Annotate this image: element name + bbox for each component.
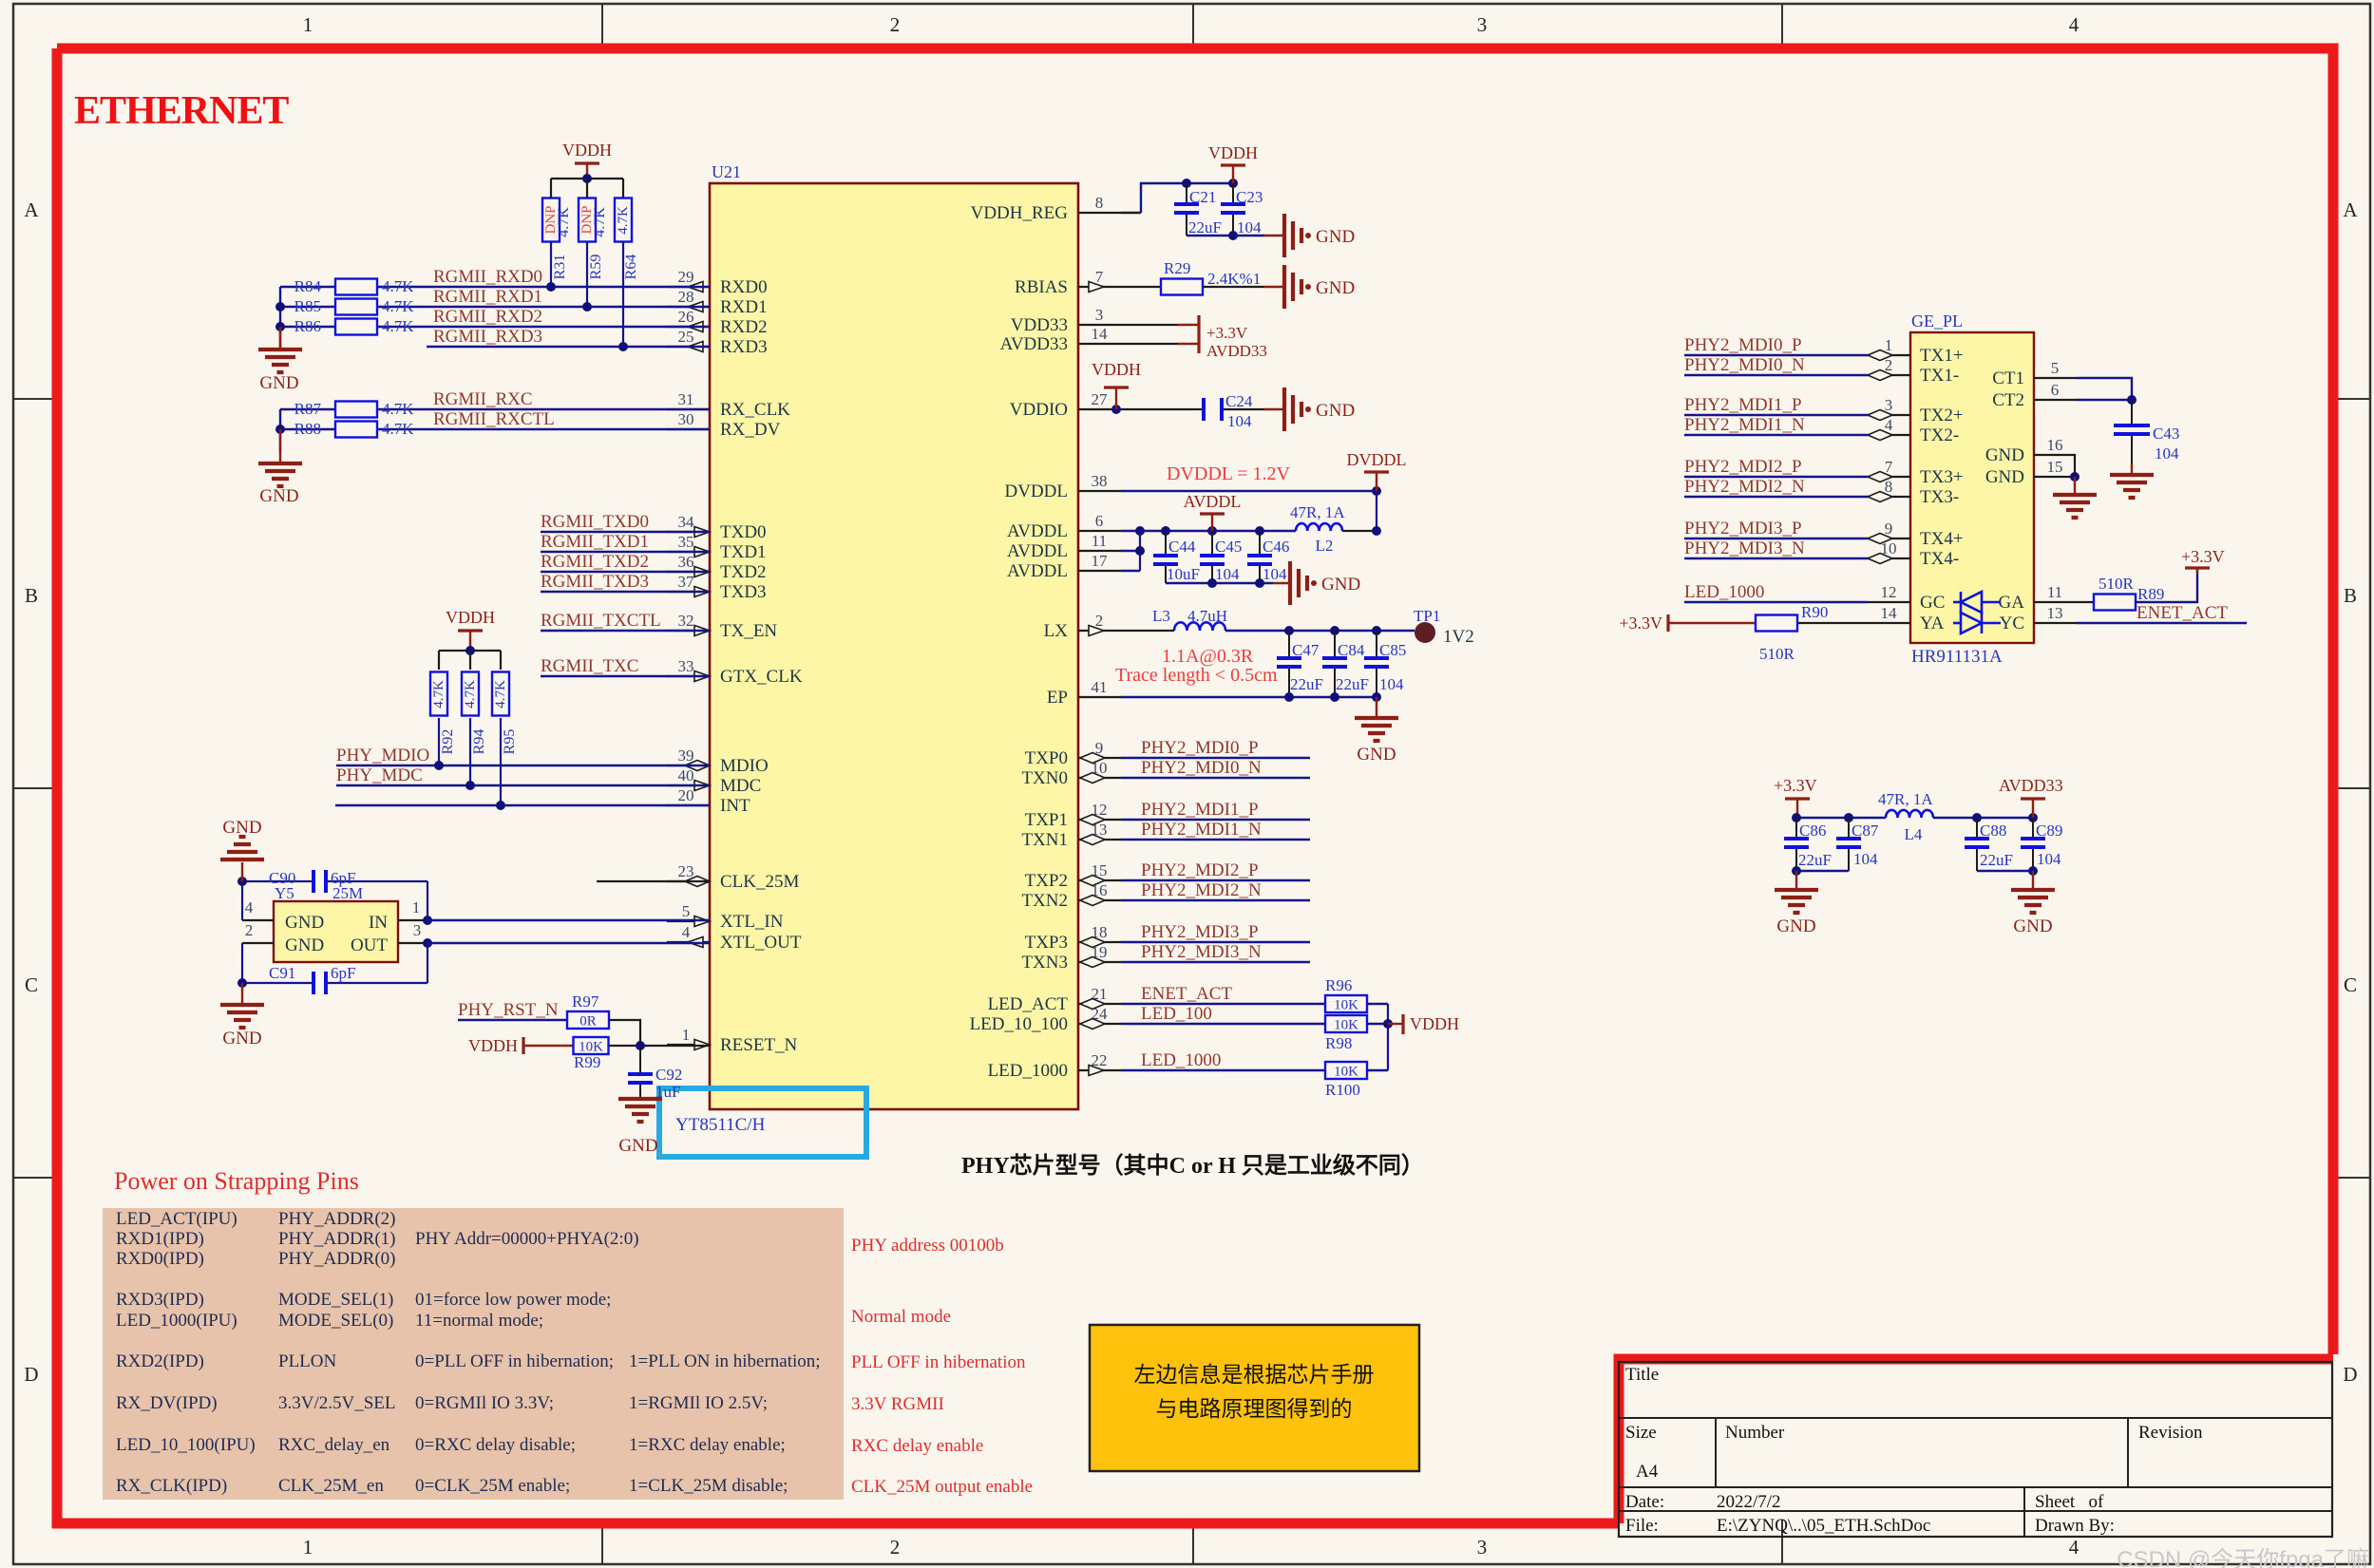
svg-text:8: 8	[1885, 478, 1893, 496]
svg-text:CT1: CT1	[1992, 368, 2024, 388]
svg-text:PHY2_MDI1_N: PHY2_MDI1_N	[1684, 415, 1805, 435]
power VDDH above C23	[1221, 163, 1245, 166]
net RGMII_RXD2 wire	[280, 326, 336, 328]
GE_PL pin 14 YA	[1868, 622, 1910, 624]
svg-text:1=CLK_25M disable;: 1=CLK_25M disable;	[629, 1476, 788, 1496]
svg-text:B: B	[25, 584, 38, 607]
svg-text:R95: R95	[502, 729, 518, 755]
svg-text:1: 1	[303, 1536, 313, 1559]
svg-text:R96: R96	[1325, 976, 1352, 994]
U21 pin 30 RX_DV	[667, 428, 710, 430]
resistor R88	[335, 422, 377, 438]
GE_PL pin 8 TX3-	[1868, 496, 1910, 498]
capacitor C90	[242, 880, 313, 882]
svg-text:TXD3: TXD3	[720, 582, 767, 602]
svg-text:16: 16	[2047, 436, 2063, 454]
svg-text:C: C	[2344, 973, 2357, 996]
svg-text:GND: GND	[1321, 575, 1360, 595]
ground for R29	[1282, 265, 1286, 309]
svg-text:PHY2_MDI1_P: PHY2_MDI1_P	[1141, 800, 1259, 820]
svg-text:23: 23	[678, 862, 694, 880]
svg-text:22uF: 22uF	[1290, 675, 1323, 693]
svg-text:AVDD33: AVDD33	[1000, 334, 1068, 354]
svg-text:C44: C44	[1168, 538, 1196, 556]
svg-text:CLK_25M output enable: CLK_25M output enable	[851, 1477, 1033, 1497]
U21 pin 10 TXN0	[1078, 777, 1121, 779]
svg-text:RGMII_RXD2: RGMII_RXD2	[433, 307, 542, 327]
svg-text:104: 104	[2155, 444, 2179, 463]
svg-text:RGMII_RXCTL: RGMII_RXCTL	[433, 409, 555, 429]
svg-text:A4: A4	[1636, 1462, 1659, 1482]
svg-text:RXD3: RXD3	[720, 337, 768, 357]
svg-text:左边信息是根据芯片手册: 左边信息是根据芯片手册	[1134, 1363, 1375, 1387]
net PHY2_MDI1_N wire at U21	[1121, 839, 1310, 841]
svg-text:VDDH: VDDH	[468, 1036, 518, 1055]
svg-text:PHY_ADDR(2): PHY_ADDR(2)	[278, 1209, 396, 1229]
svg-text:LED_100: LED_100	[1141, 1004, 1212, 1024]
net LED_1000 wire at GE_PL	[1684, 601, 1868, 603]
U21 pin 9 TXP0	[1078, 757, 1121, 759]
net PHY2_MDI0_P wire at GE_PL	[1684, 354, 1868, 356]
wire LED pullup bus	[1367, 1003, 1388, 1005]
wire R89 to +3.3V	[2136, 570, 2197, 602]
svg-text:2022/7/2: 2022/7/2	[1717, 1492, 1781, 1512]
svg-text:Title: Title	[1625, 1365, 1659, 1385]
svg-text:C88: C88	[1980, 822, 2006, 840]
svg-text:0=CLK_25M enable;: 0=CLK_25M enable;	[415, 1476, 570, 1496]
svg-text:R85: R85	[294, 297, 321, 315]
capacitor C84	[1334, 631, 1336, 658]
svg-text:1=RGMIl IO 2.5V;: 1=RGMIl IO 2.5V;	[629, 1393, 768, 1413]
svg-text:R59: R59	[588, 255, 604, 280]
svg-text:5: 5	[2051, 359, 2060, 377]
ground for RXC pulldowns	[279, 429, 281, 463]
title block outline	[1619, 1362, 2332, 1537]
inductor L4	[1886, 810, 1933, 818]
wire CLK_25M stub	[597, 880, 710, 882]
svg-text:LX: LX	[1044, 621, 1069, 641]
resistor R86	[335, 319, 377, 335]
resistor R64	[615, 198, 632, 242]
svg-text:DVDDL: DVDDL	[1347, 450, 1407, 469]
svg-text:LED_10_100(IPU): LED_10_100(IPU)	[116, 1435, 256, 1455]
svg-text:R29: R29	[1164, 259, 1190, 277]
ground above C90	[241, 862, 243, 881]
svg-text:LED_10_100: LED_10_100	[970, 1014, 1068, 1034]
svg-text:PHY2_MDI3_N: PHY2_MDI3_N	[1684, 538, 1805, 558]
ground for RXD pulldowns	[279, 327, 281, 349]
resistor R90	[1756, 615, 1797, 632]
U21 pin 13 TXN1	[1078, 839, 1121, 841]
svg-text:31: 31	[678, 390, 694, 408]
svg-text:38: 38	[1092, 472, 1108, 490]
svg-text:PHY2_MDI3_P: PHY2_MDI3_P	[1684, 519, 1802, 538]
svg-text:C23: C23	[1236, 188, 1263, 206]
svg-text:TXP2: TXP2	[1025, 871, 1068, 891]
blue highlight box around YT8511C/H	[659, 1088, 866, 1157]
svg-text:GND: GND	[222, 1029, 261, 1048]
svg-text:PHY2_MDI2_N: PHY2_MDI2_N	[1684, 477, 1805, 497]
U21 pin 21 LED_ACT	[1078, 1003, 1121, 1005]
svg-text:VDDH_REG: VDDH_REG	[971, 203, 1069, 223]
capacitor C85	[1376, 631, 1377, 658]
svg-text:PHY2_MDI0_N: PHY2_MDI0_N	[1684, 355, 1805, 375]
svg-text:1: 1	[1885, 336, 1893, 354]
svg-text:PHY Addr=00000+PHYA(2:0): PHY Addr=00000+PHYA(2:0)	[415, 1229, 639, 1249]
svg-text:4: 4	[2069, 13, 2080, 36]
resistor R92	[430, 672, 447, 716]
svg-text:R88: R88	[294, 420, 321, 438]
wire EP to ground rail	[1121, 696, 1377, 698]
svg-text:OUT: OUT	[351, 935, 388, 955]
svg-text:GND: GND	[259, 373, 298, 393]
wire crystal left bus	[241, 881, 243, 920]
svg-text:35: 35	[678, 533, 694, 551]
svg-text:R84: R84	[294, 277, 322, 295]
svg-text:XTL_OUT: XTL_OUT	[720, 933, 802, 953]
svg-text:GND: GND	[1776, 916, 1815, 936]
svg-text:PHY2_MDI0_N: PHY2_MDI0_N	[1141, 758, 1262, 778]
svg-text:PHY_ADDR(1): PHY_ADDR(1)	[278, 1229, 396, 1249]
svg-text:26: 26	[678, 308, 694, 326]
U21 pin 8 VDDH_REG	[1078, 212, 1121, 214]
net RGMII_RXD0 wire	[280, 286, 336, 288]
wire L3 to TP1	[1225, 630, 1415, 632]
resistor R31 (DNP)	[542, 198, 560, 242]
svg-text:RX_DV: RX_DV	[720, 420, 781, 440]
svg-text:14: 14	[1881, 604, 1898, 622]
U21 pin 20 INT	[667, 804, 710, 806]
svg-text:AVDDL: AVDDL	[1007, 541, 1068, 561]
ground for AVDDL caps	[1288, 561, 1292, 605]
power +3.3V at VDD33 pin	[1121, 324, 1178, 326]
svg-text:CT2: CT2	[1992, 390, 2024, 410]
capacitor C44	[1165, 531, 1167, 556]
svg-text:RBIAS: RBIAS	[1015, 277, 1068, 297]
net RGMII_TXD0 wire	[541, 531, 710, 533]
svg-text:4.7K: 4.7K	[382, 317, 414, 335]
svg-text:20: 20	[678, 786, 694, 804]
U21 pin 2 LX	[1078, 630, 1121, 632]
capacitor C91	[242, 982, 313, 984]
svg-text:RGMII_TXD3: RGMII_TXD3	[541, 572, 649, 592]
svg-text:R87: R87	[294, 400, 322, 418]
net RGMII_TXC wire	[541, 675, 710, 677]
svg-text:R89: R89	[2137, 585, 2164, 603]
svg-text:36: 36	[678, 553, 694, 571]
wire XTL_OUT	[427, 942, 710, 944]
net LED_100 wire	[1121, 1023, 1325, 1025]
svg-text:GE_PL: GE_PL	[1911, 312, 1963, 331]
svg-text:22uF: 22uF	[1798, 851, 1832, 869]
svg-text:Trace length < 0.5cm: Trace length < 0.5cm	[1115, 665, 1278, 686]
svg-text:TX1+: TX1+	[1920, 346, 1964, 366]
svg-text:GND: GND	[222, 818, 261, 838]
svg-text:3: 3	[1477, 13, 1488, 36]
svg-text:CLK_25M_en: CLK_25M_en	[278, 1476, 384, 1496]
svg-text:AVDD33: AVDD33	[1206, 342, 1267, 360]
svg-text:VDD33: VDD33	[1011, 315, 1068, 335]
svg-text:PHY芯片型号（其中C or H 只是工业级不同）: PHY芯片型号（其中C or H 只是工业级不同）	[961, 1152, 1424, 1179]
svg-text:PHY2_MDI2_N: PHY2_MDI2_N	[1141, 880, 1262, 900]
svg-text:VDDH: VDDH	[1208, 143, 1258, 162]
svg-text:14: 14	[1092, 325, 1109, 343]
crystal Y5 body	[274, 901, 398, 962]
svg-text:R90: R90	[1801, 603, 1828, 621]
svg-text:GTX_CLK: GTX_CLK	[720, 667, 803, 687]
svg-text:104: 104	[1227, 412, 1252, 430]
svg-text:4.7K: 4.7K	[556, 207, 572, 237]
wire DVDDL pin to DVDDL rail	[1121, 490, 1377, 492]
svg-text:PHY2_MDI1_P: PHY2_MDI1_P	[1684, 395, 1802, 415]
wire DVDDL vertical rail	[1376, 491, 1377, 531]
wire crystal right bus	[427, 881, 428, 920]
wire PHY_RST_N	[458, 1019, 567, 1021]
resistor R96	[1325, 995, 1367, 1012]
crystal Y5 pin 4	[242, 919, 274, 921]
U21 pin 39 MDIO	[667, 765, 710, 766]
GE_PL pin 7 TX3+	[1868, 476, 1910, 478]
strapping table background	[103, 1208, 844, 1500]
svg-text:4.7K: 4.7K	[382, 420, 414, 438]
wire RBIAS to R29	[1121, 286, 1161, 288]
wire pullup rail	[551, 178, 623, 179]
svg-text:37: 37	[678, 573, 695, 591]
capacitor C47	[1288, 631, 1290, 658]
svg-text:R31: R31	[552, 255, 568, 280]
svg-text:ETHERNET: ETHERNET	[74, 89, 289, 133]
svg-text:C84: C84	[1338, 641, 1365, 659]
svg-text:CSDN @今天你fpga了嘛: CSDN @今天你fpga了嘛	[2117, 1547, 2369, 1568]
wire LX to L3	[1121, 630, 1174, 632]
ground below C85	[1376, 697, 1377, 718]
wire C24 to ground	[1264, 408, 1284, 410]
svg-text:RX_CLK(IPD): RX_CLK(IPD)	[116, 1476, 227, 1496]
svg-text:RGMII_RXD1: RGMII_RXD1	[433, 287, 542, 307]
wire AVDDL caps to ground	[1166, 582, 1273, 584]
LED diode GC-GA	[1953, 601, 1961, 604]
svg-text:2: 2	[890, 1536, 901, 1559]
net PHY2_MDI3_P wire at GE_PL	[1684, 538, 1868, 539]
wire AVDDL pins join	[1121, 530, 1140, 532]
svg-text:1: 1	[412, 898, 421, 916]
svg-text:TP1: TP1	[1414, 607, 1440, 625]
net PHY2_MDI0_N wire at U21	[1121, 777, 1310, 779]
U21 pin 17 AVDDL	[1078, 570, 1121, 572]
svg-text:TXP1: TXP1	[1025, 810, 1068, 830]
GE_PL pin 6 CT2	[2034, 399, 2077, 401]
svg-text:22uF: 22uF	[1188, 218, 1222, 236]
svg-text:R98: R98	[1325, 1034, 1352, 1052]
svg-text:R97: R97	[572, 992, 599, 1011]
capacitor C23	[1232, 183, 1234, 204]
svg-text:2: 2	[890, 13, 901, 36]
svg-text:C89: C89	[2036, 822, 2062, 840]
svg-text:RGMII_RXC: RGMII_RXC	[433, 389, 533, 409]
net PHY2_MDI3_N wire at GE_PL	[1684, 557, 1868, 559]
svg-text:6: 6	[1095, 512, 1104, 530]
svg-text:5: 5	[682, 902, 691, 920]
svg-text:22uF: 22uF	[1980, 851, 2013, 869]
svg-text:510R: 510R	[1759, 645, 1795, 663]
svg-text:Size: Size	[1625, 1423, 1657, 1443]
net RGMII_TXD2 wire	[541, 571, 710, 573]
U21 pin 38 DVDDL	[1078, 490, 1121, 492]
U21 pin 4 XTL_OUT	[667, 941, 710, 943]
resistor R100	[1325, 1062, 1367, 1079]
capacitor C21	[1186, 183, 1187, 204]
svg-text:TX4+: TX4+	[1920, 529, 1964, 549]
svg-text:R64: R64	[623, 255, 639, 280]
svg-text:GND: GND	[259, 486, 298, 506]
svg-text:PHY2_MDI3_N: PHY2_MDI3_N	[1141, 942, 1262, 962]
U21 pin 40 MDC	[667, 784, 710, 786]
svg-text:PHY2_MDI3_P: PHY2_MDI3_P	[1141, 922, 1259, 942]
U21 pin 3 VDD33	[1078, 324, 1121, 326]
svg-text:PHY2_MDI2_P: PHY2_MDI2_P	[1684, 457, 1802, 477]
test point TP1	[1415, 622, 1435, 643]
U21 pin 16 TXN2	[1078, 899, 1121, 901]
svg-text:104: 104	[1237, 218, 1262, 236]
svg-text:GA: GA	[1999, 593, 2025, 613]
power AVDD33 at AVDD33 pin	[1121, 343, 1178, 345]
capacitor C45	[1211, 531, 1213, 556]
svg-text:RGMII_TXD2: RGMII_TXD2	[541, 552, 649, 572]
capacitor C89	[2032, 818, 2034, 839]
svg-text:0R: 0R	[579, 1014, 597, 1030]
svg-text:4.7uH: 4.7uH	[1187, 607, 1227, 625]
U21 pin 25 RXD3	[667, 346, 710, 348]
svg-text:TX1-: TX1-	[1920, 366, 1959, 386]
U21 pin 7 RBIAS	[1078, 286, 1121, 288]
net RGMII_RXD3 wire	[427, 346, 710, 348]
resistor R98	[1325, 1015, 1367, 1032]
svg-text:GND: GND	[1985, 467, 2024, 487]
svg-text:PHY_MDC: PHY_MDC	[336, 765, 423, 785]
svg-text:C47: C47	[1292, 641, 1320, 659]
svg-text:C91: C91	[269, 964, 295, 982]
crystal Y5 pin 3	[398, 942, 427, 944]
svg-text:GND: GND	[1357, 745, 1396, 765]
svg-text:104: 104	[1379, 675, 1404, 693]
wire filter rail left	[1796, 817, 1886, 819]
svg-text:C85: C85	[1379, 641, 1406, 659]
svg-text:3.3V/2.5V_SEL: 3.3V/2.5V_SEL	[278, 1393, 396, 1413]
U21 pin 12 TXP1	[1078, 819, 1121, 821]
wire VDDIO	[1121, 408, 1194, 410]
svg-text:2: 2	[1095, 612, 1104, 630]
svg-text:8: 8	[1095, 194, 1104, 212]
svg-text:0=PLL OFF in hibernation;: 0=PLL OFF in hibernation;	[415, 1351, 614, 1371]
power VDDH above VDDIO	[1104, 386, 1129, 388]
GE_PL pin 3 TX2+	[1868, 414, 1910, 416]
svg-text:IN: IN	[369, 913, 388, 933]
U21 pin 37 TXD3	[667, 591, 710, 593]
svg-text:MDC: MDC	[720, 776, 761, 796]
capacitor C46	[1259, 531, 1261, 556]
svg-text:GND: GND	[618, 1136, 657, 1156]
svg-text:HR911131A: HR911131A	[1911, 647, 2003, 667]
svg-text:47R, 1A: 47R, 1A	[1290, 503, 1345, 521]
svg-text:TX2+: TX2+	[1920, 406, 1964, 425]
svg-text:PHY_RST_N: PHY_RST_N	[458, 1000, 559, 1020]
svg-text:RGMII_TXD0: RGMII_TXD0	[541, 512, 649, 532]
svg-text:R100: R100	[1325, 1081, 1360, 1099]
svg-text:E:\ZYNQ\..\05_ETH.SchDoc: E:\ZYNQ\..\05_ETH.SchDoc	[1717, 1516, 1930, 1536]
GE_PL pin 10 TX4-	[1868, 557, 1910, 559]
svg-text:C43: C43	[2153, 425, 2179, 443]
svg-text:17: 17	[1092, 552, 1109, 570]
svg-text:D: D	[2343, 1363, 2357, 1386]
ground right filter	[2032, 871, 2034, 890]
wire C86-C87 ground rail	[1796, 870, 1849, 872]
wire RXD pulldown bus	[279, 287, 281, 351]
svg-text:LED_1000: LED_1000	[1141, 1050, 1221, 1070]
svg-text:39: 39	[678, 746, 694, 765]
net PHY2_MDI3_P wire at U21	[1121, 941, 1310, 943]
svg-text:+3.3V: +3.3V	[1206, 324, 1248, 342]
GE_PL pin 2 TX1-	[1868, 374, 1910, 376]
power VDDH for LED pullups	[1388, 1023, 1403, 1025]
orange note box	[1090, 1325, 1419, 1471]
svg-text:7: 7	[1885, 458, 1893, 476]
svg-text:U21: U21	[712, 162, 741, 181]
svg-text:34: 34	[678, 513, 695, 531]
svg-text:VDDH: VDDH	[446, 608, 495, 627]
svg-text:0=RXC delay disable;: 0=RXC delay disable;	[415, 1435, 576, 1455]
inductor L3	[1174, 622, 1225, 631]
U21 pin 36 TXD2	[667, 571, 710, 573]
wire XTL_IN	[427, 919, 710, 921]
svg-text:TX4-: TX4-	[1920, 549, 1959, 569]
net PHY2_MDI2_P wire at U21	[1121, 879, 1310, 881]
svg-text:32: 32	[678, 612, 694, 630]
ground below C43	[2131, 463, 2133, 475]
net PHY2_MDI3_N wire at U21	[1121, 961, 1310, 963]
LED diode YA-YC	[1953, 622, 1961, 625]
svg-text:PHY2_MDI1_N: PHY2_MDI1_N	[1141, 820, 1262, 840]
svg-text:4.7K: 4.7K	[382, 297, 414, 315]
GE_PL pin 11 GA	[2034, 601, 2077, 603]
U21 pin 34 TXD0	[667, 531, 710, 533]
U21 pin 27 VDDIO	[1078, 408, 1121, 410]
svg-text:Power on Strapping Pins: Power on Strapping Pins	[114, 1167, 359, 1195]
svg-text:10uF: 10uF	[1167, 565, 1200, 583]
net LED_1000 wire at U21	[1121, 1069, 1325, 1071]
svg-text:40: 40	[678, 766, 694, 784]
crystal Y5 pin 1	[398, 919, 427, 921]
svg-text:LED_1000: LED_1000	[988, 1061, 1068, 1081]
U21 pin 24 LED_10_100	[1078, 1023, 1121, 1025]
svg-text:GND: GND	[285, 913, 324, 933]
svg-text:2.4K%1: 2.4K%1	[1207, 270, 1261, 288]
transformer GE_PL body	[1910, 332, 2034, 643]
svg-text:2: 2	[245, 921, 254, 939]
ground for transformer GND pins	[2074, 477, 2076, 495]
svg-text:YA: YA	[1920, 614, 1945, 633]
svg-text:1.1A@0.3R: 1.1A@0.3R	[1162, 646, 1254, 667]
resistor R89	[2077, 601, 2094, 603]
svg-text:PHY_MDIO: PHY_MDIO	[336, 746, 429, 765]
wire R90 to YA pin	[1797, 622, 1868, 624]
svg-text:PHY_ADDR(0): PHY_ADDR(0)	[278, 1249, 396, 1269]
GE_PL pin 9 TX4+	[1868, 538, 1910, 539]
wire filter rail right	[1933, 817, 2033, 819]
net ENET_ACT wire	[1121, 1003, 1325, 1005]
svg-text:4.7K: 4.7K	[463, 680, 478, 708]
svg-text:RXD2(IPD): RXD2(IPD)	[116, 1351, 204, 1371]
svg-text:AVDD33: AVDD33	[1999, 776, 2063, 795]
